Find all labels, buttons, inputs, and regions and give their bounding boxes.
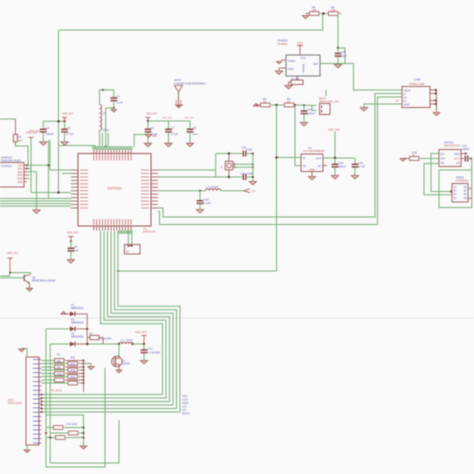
wire BAT net vertical <box>337 14 339 49</box>
resistor RB2 <box>68 368 78 372</box>
wire row r3 <box>46 437 55 439</box>
wire group top <box>46 414 84 416</box>
wire boost rail <box>87 343 119 345</box>
svg-text:4k7: 4k7 <box>18 138 23 142</box>
wire D1 anode <box>64 313 71 315</box>
svg-text:10k: 10k <box>312 8 317 12</box>
junction L2 left <box>118 343 120 345</box>
ESP32 left pin stubs and names <box>71 169 78 171</box>
wire pullup A4 out <box>65 379 84 381</box>
wire C5 to gnd <box>64 132 66 142</box>
wire R4 left stub <box>256 104 260 106</box>
transistor Q1 envelope <box>112 356 122 366</box>
wire pullup B2 feed <box>42 369 68 371</box>
svg-text:VDD_3V3: VDD_3V3 <box>7 252 19 255</box>
svg-text:VCC: VCC <box>454 158 459 161</box>
wire battery positive drop <box>276 105 278 271</box>
junction crystal bottom <box>228 176 230 178</box>
wire C6 to gnd <box>147 132 149 144</box>
svg-text:NC: NC <box>303 164 307 168</box>
wire OLED SCL <box>27 164 49 166</box>
wire pullup B1 out <box>79 363 84 365</box>
U5 right pin wires <box>461 153 466 155</box>
wire C14 to rail <box>246 176 253 178</box>
ground below crystal rail <box>249 182 256 185</box>
junction L2 right <box>131 343 133 345</box>
junction C5 top <box>63 120 65 122</box>
capacitor C31 <box>464 156 466 162</box>
svg-text:C6: C6 <box>151 126 155 130</box>
wire pullup A4 feed <box>42 379 55 381</box>
wire GND pin stub <box>279 67 286 69</box>
wire left short row <box>62 172 71 174</box>
wire crystal top rail <box>216 153 243 155</box>
svg-text:VBUS: VBUS <box>404 88 411 92</box>
wire C9 stem <box>70 241 72 248</box>
wire pullup col to gnd <box>84 364 92 367</box>
junction C31 right <box>470 158 472 160</box>
wire pullup A1 feed <box>42 360 55 362</box>
resistor RA2 <box>55 365 65 369</box>
ground below OLED wires <box>33 210 40 213</box>
pin NC stub right <box>323 165 327 167</box>
resistor RB1 <box>68 362 78 366</box>
capacitor C4 <box>40 128 47 130</box>
svg-text:BAT: BAT <box>313 62 318 66</box>
wire PIC1 top gnd <box>22 349 28 358</box>
wire D1 cathode <box>76 313 87 315</box>
capacitor C12 <box>141 349 148 351</box>
svg-text:VDD_3V3: VDD_3V3 <box>328 128 340 132</box>
wire BAT dogleg to USB VBUS <box>338 48 402 90</box>
svg-text:2.5A/125V: 2.5A/125V <box>100 338 112 341</box>
wire VCC to TP4056 <box>299 46 301 56</box>
junction bus row 1 at header <box>41 394 43 396</box>
wire C30 to gnd <box>354 167 356 176</box>
junction bus row 5 at header <box>41 408 43 410</box>
wire pad riser 3 <box>105 108 107 147</box>
wire pullup B4 out <box>79 382 84 384</box>
junction gnd rail top <box>252 153 254 155</box>
wire XTAL_P row <box>158 169 216 171</box>
resistor R6 <box>329 12 339 16</box>
wire crystal case gnd B <box>234 166 253 168</box>
svg-text:VDD_3V3: VDD_3V3 <box>26 132 38 135</box>
wire battery rail corner <box>118 270 277 272</box>
junction pullup A2 <box>83 366 85 368</box>
OLED header box <box>0 163 24 188</box>
junction bus row 6 at header <box>41 411 43 413</box>
supply tick above C6 <box>146 117 151 119</box>
wire pullup B4 feed <box>42 382 68 384</box>
junction VDD stem <box>9 272 11 274</box>
capacitor C9 <box>68 247 75 249</box>
wire R5-R6 link <box>320 13 328 15</box>
svg-text:100nF: 100nF <box>46 132 54 136</box>
wire Q2 emitter drop <box>29 283 31 288</box>
svg-text:VDD_3V3: VDD_3V3 <box>67 232 79 235</box>
ESP32 top pin stubs and pads <box>93 149 95 154</box>
LDO U3 box <box>301 154 323 172</box>
ground below C10 <box>196 210 203 213</box>
resistor RB4 <box>68 381 78 385</box>
svg-text:VDD_3V3: VDD_3V3 <box>62 112 74 115</box>
ground below antenna <box>177 106 181 108</box>
supply tick far left <box>8 257 13 259</box>
wire VDD to Q2 collector <box>10 273 30 275</box>
wire LDO out up <box>334 132 336 159</box>
svg-text:D-: D- <box>404 92 407 96</box>
wire bottom loop inner <box>46 368 105 467</box>
antenna ANT1 symbol <box>175 86 183 93</box>
svg-text:VDD: VDD <box>17 181 22 184</box>
wire BATT feed down <box>325 90 327 96</box>
wire U5 in a <box>431 154 452 192</box>
wire VBUS top rail <box>59 14 323 31</box>
svg-text:C8: C8 <box>193 126 197 130</box>
svg-text:VCC: VCC <box>300 56 306 60</box>
junction R5/R6 <box>322 12 324 14</box>
capacitor C30 <box>352 163 359 165</box>
junction r2 left <box>45 432 47 434</box>
wire USB GND <box>364 104 402 108</box>
resistor RA3 <box>55 372 65 376</box>
svg-text:1uF: 1uF <box>193 132 198 136</box>
wire OLED GND <box>27 172 37 210</box>
wire C7 to gnd <box>168 132 170 144</box>
svg-text:4.7uF/25V: 4.7uF/25V <box>147 350 160 354</box>
supply tick top-left <box>29 137 34 139</box>
diode D1 <box>70 312 75 317</box>
wire pullup A2 feed <box>42 366 55 368</box>
capacitor C29 <box>332 163 339 165</box>
wire USB D+ to ESP32 <box>158 97 402 225</box>
junction C9 top <box>70 240 72 242</box>
svg-text:ATB33-102E: ATB33-102E <box>409 82 425 86</box>
junction C10 tap <box>199 190 201 192</box>
junction BAT/C28 <box>337 47 339 49</box>
crystal case pins <box>233 163 235 169</box>
wire C4 to gnd <box>42 132 44 142</box>
svg-text:MBR0520L: MBR0520L <box>71 335 85 339</box>
wire pullup common column <box>83 361 85 393</box>
junction C6 rail <box>147 120 149 122</box>
resistor R1 stubs <box>14 119 16 134</box>
wire CHRG pin stub <box>281 59 286 61</box>
inductor L1 coil <box>100 105 102 131</box>
ground right of pullups <box>88 367 94 370</box>
wire C28 stem top <box>337 48 339 54</box>
wire bus row C <box>0 200 71 202</box>
ESP32 right pin stubs and names <box>151 169 158 171</box>
resistor R5 <box>310 12 320 16</box>
wire C8 to gnd <box>189 132 191 144</box>
svg-text:R12: R12 <box>71 362 76 366</box>
svg-text:1uF: 1uF <box>74 249 79 253</box>
ground below USB GND wire <box>360 108 367 111</box>
diode D3 <box>70 342 75 347</box>
ground below Q2 <box>26 288 32 291</box>
svg-text:ID: ID <box>404 99 407 103</box>
junction C3 bottom <box>113 107 115 109</box>
svg-text:GND: GND <box>288 67 294 71</box>
wire pullup B3 feed <box>42 376 68 378</box>
wire C11 to rail <box>246 153 253 155</box>
wire U3 GND drop <box>311 172 313 177</box>
wire PROG to ground <box>289 82 292 86</box>
junction r2 <box>83 432 85 434</box>
svg-text:GND: GND <box>454 153 460 156</box>
junction pullup A1 <box>83 360 85 362</box>
svg-text:SCA/SCL: SCA/SCL <box>1 164 13 168</box>
wire S2 pin a <box>127 231 129 245</box>
svg-text:C14: C14 <box>241 172 246 176</box>
wire C9 to gnd <box>70 251 72 260</box>
svg-text:C7: C7 <box>171 126 175 130</box>
capacitor C3 <box>111 97 118 99</box>
svg-text:C5: C5 <box>67 126 71 130</box>
wire ESP32 top-right <box>134 135 148 148</box>
wire row r1 <box>46 427 53 429</box>
ground below C13 <box>300 123 307 126</box>
wire C5 stem <box>64 121 66 129</box>
wire R6 right bend down <box>339 13 341 15</box>
capacitor C10 <box>197 200 204 202</box>
svg-text:ID: ID <box>396 99 399 103</box>
wire pullup A3 feed <box>42 373 55 375</box>
ground below C28 <box>334 65 341 68</box>
junction r3 left <box>49 437 51 439</box>
wire C12 to gnd <box>143 352 145 360</box>
svg-text:R8: R8 <box>57 359 61 363</box>
ground arrow R16 <box>400 159 406 162</box>
ESD chip right stubs <box>468 188 472 190</box>
svg-text:VDD_3V3: VDD_3V3 <box>184 118 195 120</box>
supply tick above C5 <box>62 117 67 119</box>
capacitor C5 <box>61 128 68 130</box>
ground above PIC1 <box>19 349 25 352</box>
ESP32 module U1 box <box>78 154 151 227</box>
capacitor C14 <box>242 174 244 180</box>
wire F1 left <box>87 337 90 339</box>
svg-text:R9: R9 <box>57 365 61 369</box>
wire ESP32 top-left feed <box>59 146 95 148</box>
wire SCL riser <box>48 140 50 199</box>
wire U3 OUT <box>323 157 355 159</box>
wire crystal case gnd A <box>234 163 253 165</box>
wire bottom loop outer <box>50 420 119 463</box>
charger IC U2 TP4056 box <box>286 55 320 76</box>
svg-text:TP4056: TP4056 <box>302 63 306 73</box>
wire C13 to ground <box>303 113 305 122</box>
ground below C8 <box>186 143 193 146</box>
svg-text:R13: R13 <box>71 368 76 372</box>
ground below group <box>80 446 86 449</box>
wire SPI bus 6 <box>41 231 180 412</box>
svg-text:C3: C3 <box>116 94 120 98</box>
supply tick above C9 <box>68 236 73 238</box>
svg-text:P0505SDL: P0505SDL <box>456 179 470 183</box>
ground below C12 <box>140 361 147 364</box>
wire bus row E <box>0 205 71 207</box>
svg-text:USB: USB <box>414 78 420 82</box>
resistor R18 <box>69 431 79 435</box>
wire crystal left rail <box>215 154 217 178</box>
svg-text:R10: R10 <box>57 372 62 376</box>
wire cap rail C4C5 <box>43 120 64 122</box>
svg-text:VIN: VIN <box>441 158 445 161</box>
ESD chip box <box>452 184 468 203</box>
svg-text:TP_GPIO: TP_GPIO <box>51 390 62 393</box>
button S2 box <box>125 245 141 255</box>
svg-text:ESP32-S3: ESP32-S3 <box>143 230 156 234</box>
svg-text:FS: FS <box>456 162 460 165</box>
wire SPI bus 3 <box>41 231 170 402</box>
wire S2 pin b <box>131 231 133 245</box>
junction pullup B2 <box>83 369 85 371</box>
capacitor C28 <box>335 53 342 55</box>
wire D3 anode feed <box>50 343 70 345</box>
svg-text:4.7uF: 4.7uF <box>67 132 74 136</box>
resistor R1 <box>13 134 17 141</box>
resistor R3 <box>285 103 295 107</box>
wire pullup B1 feed <box>42 363 68 365</box>
junction crystal top <box>228 152 230 154</box>
junction case gnd B <box>252 166 254 168</box>
wire VDD left drop <box>58 30 60 193</box>
green pads on ESP32 bottom pins <box>119 231 133 233</box>
svg-text:10uF: 10uF <box>341 54 348 58</box>
USB shield drop wire <box>436 90 438 113</box>
inductor L3 <box>206 189 221 191</box>
svg-text:VCC: VCC <box>297 41 304 45</box>
ground below C4 <box>40 142 47 145</box>
svg-text:VDD_3V3: VDD_3V3 <box>162 118 173 120</box>
wire loop tap to C31 <box>471 159 473 171</box>
wire PROG pin drop <box>296 76 298 80</box>
wire L2 to VDD node <box>133 343 144 345</box>
wire RF row <box>158 190 206 192</box>
wire bus row D <box>0 203 71 205</box>
wire USB D- to ESP32 <box>158 94 402 218</box>
ground below C5 <box>61 142 68 145</box>
wire C3 to riser <box>106 107 114 109</box>
wire SPI bus 5 <box>41 231 177 409</box>
svg-text:NC: NC <box>318 164 322 168</box>
svg-text:0.1uF: 0.1uF <box>116 101 123 105</box>
junction diode col/rail <box>86 343 88 345</box>
svg-text:2.4GHZ PCB ANTENNA: 2.4GHZ PCB ANTENNA <box>174 81 205 85</box>
ground below C30 <box>351 176 358 179</box>
ground below C9 <box>67 260 74 263</box>
svg-text:R14: R14 <box>71 375 76 379</box>
junction case gnd A <box>252 163 254 165</box>
wire VDD to OLED row <box>30 138 32 169</box>
junction C13 node <box>294 104 296 106</box>
wire U5 loop <box>439 170 472 208</box>
ground below USB shield <box>433 113 439 116</box>
resistor RA4 <box>55 378 65 382</box>
wire ESP32 EN row <box>50 169 71 171</box>
sheet divider line <box>0 317 474 319</box>
svg-text:GND: GND <box>404 103 410 107</box>
svg-text:VDD_3V3: VDD_3V3 <box>146 113 158 116</box>
junction D3 out <box>86 343 88 345</box>
wire R16 left stub <box>403 158 409 160</box>
wire Q2 base row <box>0 277 24 279</box>
wire pad riser 4 <box>107 133 109 147</box>
net arrow RF to antenna <box>244 189 250 193</box>
wire left net jog <box>0 273 10 276</box>
junction C5 rail <box>57 120 59 122</box>
wire row r2 out <box>79 432 84 434</box>
wire U3 IN <box>277 157 302 159</box>
svg-text:10uH: 10uH <box>126 338 132 342</box>
junction pullup A3 <box>83 373 85 375</box>
junction rail/bus <box>117 270 119 272</box>
wire pullup B3 out <box>79 376 84 378</box>
junction pullup B4 <box>83 382 85 384</box>
junction battery node <box>303 104 305 106</box>
wire U3 EN from battery rail <box>295 105 301 166</box>
junction SCL riser <box>48 164 50 166</box>
junction R4/R3 node <box>275 104 277 106</box>
junction r1 <box>83 427 85 429</box>
ground at ESP32 top-right <box>145 135 151 138</box>
diode D2 <box>70 327 75 332</box>
wire L3 to antenna arrow <box>221 190 244 192</box>
crystal Y1 pins <box>228 154 230 162</box>
junction VDD node <box>143 343 145 345</box>
fuse F1 <box>90 335 99 339</box>
wire D3 cathode <box>76 343 87 345</box>
wire C3 bottom <box>113 101 115 108</box>
svg-text:MMBT3904-L23SJE: MMBT3904-L23SJE <box>32 279 56 283</box>
junction U3 OUT/C29 <box>334 157 336 159</box>
wire D2 cathode <box>76 328 87 330</box>
junction pad riser <box>105 145 107 147</box>
junction bus row 4 at header <box>41 404 43 406</box>
transistor Q1 (boost switch) <box>118 356 120 359</box>
wire pullup A1 out <box>65 360 84 362</box>
svg-text:ESP32S3: ESP32S3 <box>108 187 122 191</box>
header PIC1 box <box>26 357 39 445</box>
wire pullup A3 out <box>65 373 84 375</box>
ground below C29 <box>331 176 338 179</box>
junction bus row 3 at header <box>41 401 43 403</box>
wire R5 left stub <box>306 13 310 15</box>
svg-text:R11: R11 <box>71 355 76 359</box>
capacitor C7 <box>165 128 172 130</box>
wire U5 in b <box>424 164 452 195</box>
svg-text:OUT: OUT <box>316 157 322 161</box>
svg-text:100nF: 100nF <box>338 165 346 169</box>
ground below C7 <box>165 143 172 146</box>
USB shield pins right <box>430 89 436 91</box>
wire OLED SDA <box>27 169 31 193</box>
wire C4 stem <box>42 121 44 129</box>
capacitor C8 <box>187 128 194 130</box>
USB connector box <box>402 87 430 108</box>
wire row r3 out <box>66 437 84 439</box>
transistor Q2 <box>23 275 25 281</box>
wire C29 stem <box>334 158 336 164</box>
junction bus row 2 at header <box>41 397 43 399</box>
junction D2 out <box>86 328 88 330</box>
antenna base <box>175 104 183 106</box>
wire GND pin drop <box>278 68 280 71</box>
svg-text:22pF: 22pF <box>247 148 253 152</box>
